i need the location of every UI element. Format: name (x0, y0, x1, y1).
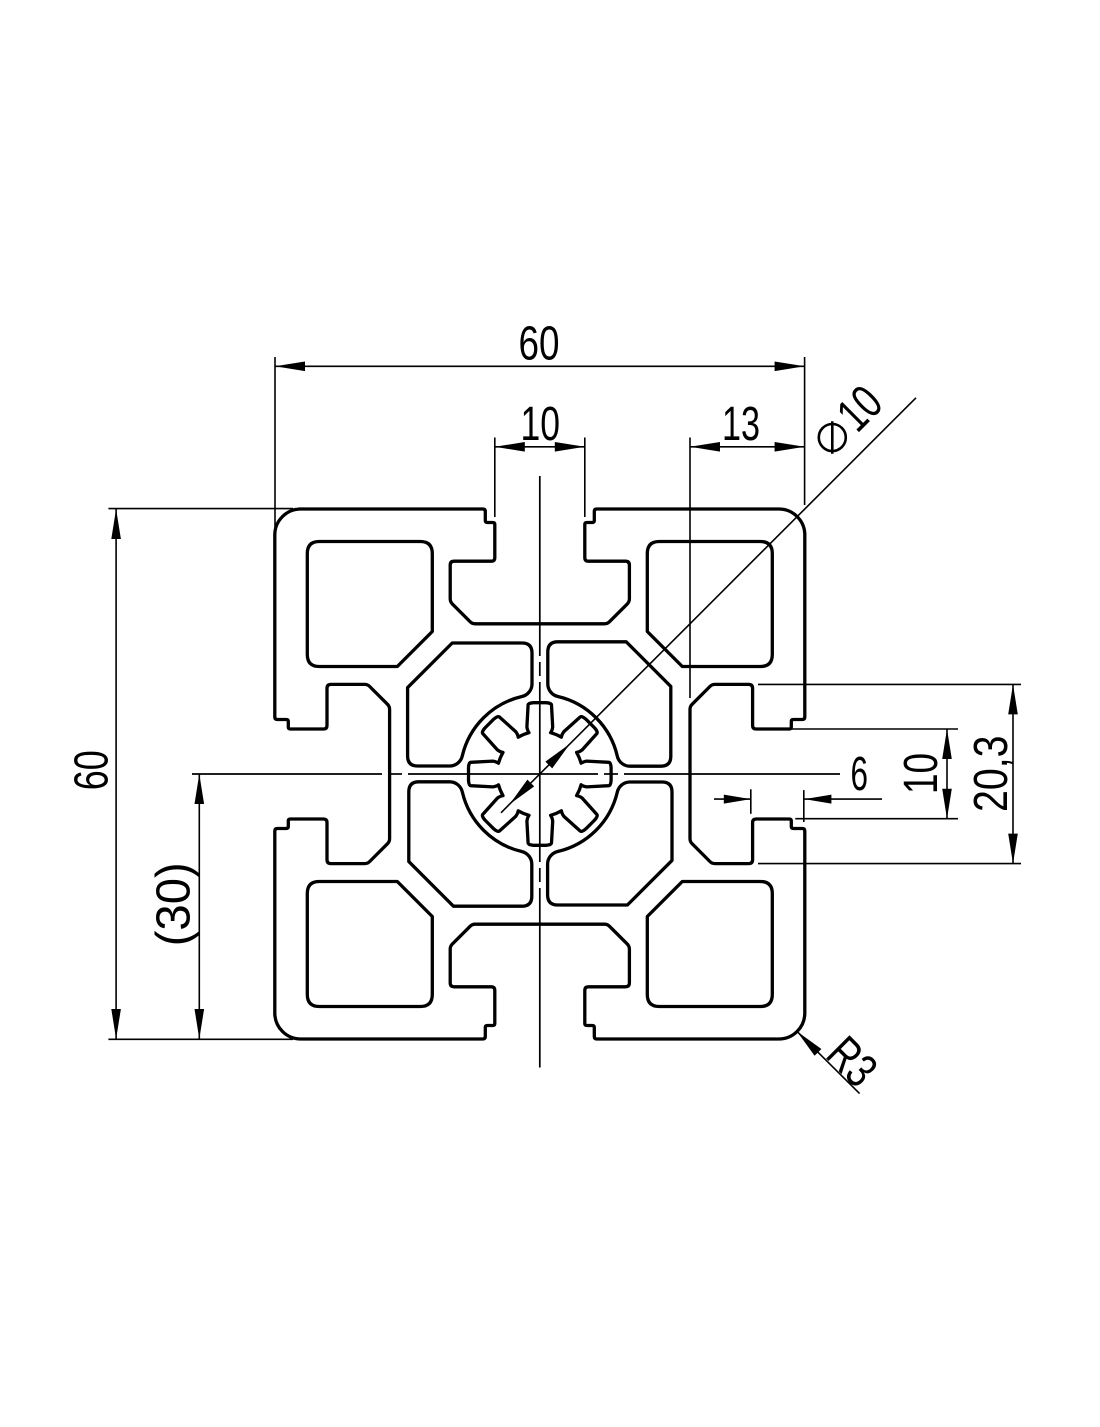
svg-text:10: 10 (895, 753, 948, 794)
svg-text:13: 13 (722, 398, 760, 451)
svg-text:60: 60 (519, 318, 560, 371)
svg-text:6: 6 (851, 748, 869, 801)
svg-text:60: 60 (66, 750, 119, 790)
svg-text:20,3: 20,3 (965, 736, 1018, 813)
svg-text:(30): (30) (148, 862, 201, 946)
svg-text:10: 10 (521, 398, 561, 451)
